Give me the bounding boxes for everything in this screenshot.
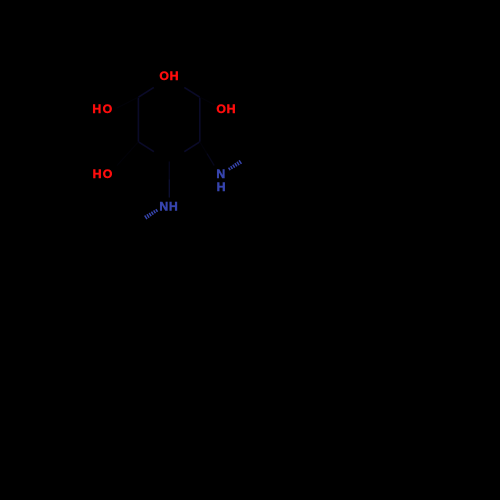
svg-text:H: H	[92, 102, 101, 116]
ring bond C6-C5 right vertical	[199, 97, 201, 142]
svg-text:H: H	[169, 200, 178, 214]
bond C3-O lower-left hydroxyl	[117, 142, 138, 166]
svg-text:H: H	[227, 102, 236, 116]
svg-text:N: N	[216, 167, 225, 181]
ring bond C2-C3 left vertical	[137, 97, 139, 142]
svg-text:O: O	[159, 69, 169, 83]
svg-text:N: N	[159, 200, 168, 214]
ring bond C1-C6 upper-right half-diagonal	[184, 87, 200, 97]
bond C2-O upper-left hydroxyl	[117, 97, 139, 108]
svg-text:H: H	[217, 180, 226, 194]
svg-text:O: O	[216, 102, 226, 116]
ring bond C1-C2 upper-left half-diagonal	[138, 87, 153, 97]
hashed wedge bond N(right)-CH2 chain	[229, 160, 242, 170]
hashed wedge bond N(bottom)-CH2 chain	[145, 209, 158, 219]
ring bond C5-C4 lower-right half-diagonal	[184, 142, 200, 152]
svg-text:O: O	[103, 102, 113, 116]
svg-text:O: O	[103, 167, 113, 181]
bond C6-O right hydroxyl	[200, 97, 214, 104]
bond C5-N right amine	[200, 142, 207, 154]
ring bond C3-C4 lower-left half-diagonal	[138, 142, 154, 152]
bond C4-N bottom amine vertical	[168, 162, 170, 180]
svg-text:H: H	[170, 69, 179, 83]
svg-text:H: H	[93, 167, 102, 181]
